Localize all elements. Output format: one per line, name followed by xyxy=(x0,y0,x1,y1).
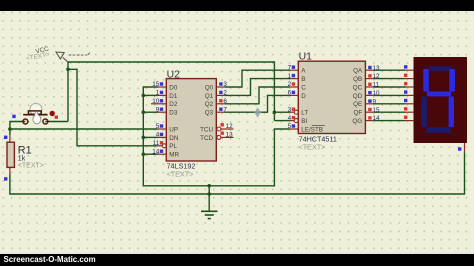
svg-text:QB: QB xyxy=(353,76,362,83)
U2 pin 4 DN xyxy=(156,132,179,142)
svg-text:U1: U1 xyxy=(299,52,313,63)
node button left state xyxy=(12,115,15,118)
node R1 bottom state xyxy=(4,177,7,180)
node D3 junction xyxy=(142,110,146,114)
svg-text:QE: QE xyxy=(353,101,362,108)
node D1 junction xyxy=(142,94,146,98)
svg-text:10: 10 xyxy=(373,90,381,97)
node VCC/button junction xyxy=(66,68,70,72)
U2 pin 3 Q0 xyxy=(205,81,228,91)
mouse cursor xyxy=(33,112,41,124)
U2 pin 1 D1 xyxy=(156,90,178,100)
U2 pin 15 D0 xyxy=(152,81,178,91)
svg-text:6: 6 xyxy=(223,98,227,105)
svg-text:UP: UP xyxy=(169,126,178,133)
svg-text:LE/STB: LE/STB xyxy=(301,126,323,133)
node marker diamond xyxy=(254,107,261,117)
wire MR branch xyxy=(143,153,158,155)
node R1 top state xyxy=(4,136,7,139)
wire D3 branch xyxy=(143,111,158,113)
svg-text:5: 5 xyxy=(288,123,292,130)
label U1 <TEXT> xyxy=(299,143,326,152)
svg-text:DN: DN xyxy=(169,135,179,142)
svg-text:Q0: Q0 xyxy=(205,84,214,91)
svg-text:<TEXT>: <TEXT> xyxy=(167,170,194,179)
svg-text:QC: QC xyxy=(353,84,363,91)
wire QA-QG segment A xyxy=(374,69,406,71)
svg-text:12: 12 xyxy=(373,73,381,80)
label U2 <TEXT> xyxy=(167,170,194,179)
U1 pin 9 QE xyxy=(353,98,376,108)
svg-text:13: 13 xyxy=(373,65,381,72)
U1 pin 4 BI xyxy=(288,115,308,125)
svg-text:D0: D0 xyxy=(169,84,178,91)
node ground rail junction xyxy=(207,192,211,196)
U2 pin 14 MR xyxy=(152,148,179,158)
svg-text:2: 2 xyxy=(223,90,227,97)
ground xyxy=(201,186,218,219)
wire DN branch xyxy=(143,136,158,138)
svg-text:11: 11 xyxy=(153,140,160,147)
display common pin xyxy=(458,143,465,152)
node button/R1/UP junction xyxy=(8,127,12,131)
label R1 xyxy=(18,145,32,157)
screen bottom bar xyxy=(0,252,474,254)
svg-text:3: 3 xyxy=(288,106,292,113)
7-segment display xyxy=(414,57,468,143)
U2 pin 13 TCD xyxy=(200,132,233,142)
display segment G (on) xyxy=(427,92,452,97)
U1 pin 11 QC xyxy=(353,82,380,92)
wire VCC branch to LT pin xyxy=(274,111,290,113)
svg-text:1: 1 xyxy=(288,73,292,80)
U1 pin 5 LE/STB xyxy=(288,123,325,133)
wire VCC down to button xyxy=(67,62,69,122)
power terminal VCC xyxy=(56,52,90,62)
svg-text:D3: D3 xyxy=(169,110,178,117)
svg-text:BI: BI xyxy=(301,118,307,125)
U1 pin 10 QD xyxy=(353,90,380,100)
counter U2 74LS192 xyxy=(166,79,216,161)
wire VCC to BI pin xyxy=(274,120,290,122)
U1 pin 15 QF xyxy=(353,107,380,117)
display pin A xyxy=(404,65,414,70)
resistor R1 xyxy=(7,135,14,174)
svg-text:C: C xyxy=(301,84,306,91)
label R1 value 1k xyxy=(18,156,26,163)
svg-text:7: 7 xyxy=(223,106,227,113)
svg-text:Q1: Q1 xyxy=(205,93,214,100)
wire Q2 to C xyxy=(224,87,290,104)
svg-text:15: 15 xyxy=(373,107,381,114)
display segment F (on) xyxy=(423,69,429,92)
U1 pin 14 QG xyxy=(352,115,380,125)
svg-text:4: 4 xyxy=(288,115,292,122)
U2 pin 2 Q1 xyxy=(205,90,228,100)
display segment E (off) xyxy=(421,96,427,127)
screen top bar xyxy=(0,0,474,11)
svg-text:B: B xyxy=(301,76,305,83)
svg-text:1: 1 xyxy=(156,90,160,97)
svg-text:9: 9 xyxy=(373,98,377,105)
svg-text:TCU: TCU xyxy=(200,126,213,133)
wire button left terminal to R1/UP xyxy=(10,122,26,136)
svg-text:4: 4 xyxy=(156,132,160,139)
node ground bus junction xyxy=(207,184,211,188)
U1 pin 7 A xyxy=(288,64,307,74)
button actuate red dot xyxy=(50,111,55,116)
U1 pin 13 QA xyxy=(353,65,380,75)
label VCC xyxy=(35,46,50,56)
U1 pin 1 B xyxy=(288,73,306,83)
U2 pin 6 Q2 xyxy=(205,98,228,108)
svg-text:10: 10 xyxy=(152,98,160,105)
display segment B (on) xyxy=(449,69,455,92)
wire Q1 to B xyxy=(224,79,290,96)
label U1 xyxy=(299,52,313,63)
svg-text:D2: D2 xyxy=(169,101,178,108)
label U2 xyxy=(167,69,181,80)
display pin E xyxy=(404,99,414,104)
display segment D (off) xyxy=(425,127,451,133)
U1 pin 3 LT xyxy=(288,106,309,116)
wire UP pin rail xyxy=(10,128,158,130)
label VCC <TEXT> xyxy=(26,51,51,62)
U1 pin 12 QB xyxy=(353,73,380,83)
display pin F xyxy=(404,107,414,112)
svg-text:U2: U2 xyxy=(167,69,181,80)
svg-text:TCD: TCD xyxy=(200,135,213,142)
svg-text:2: 2 xyxy=(288,81,292,88)
svg-text:11: 11 xyxy=(373,82,380,89)
wire D1 branch xyxy=(143,94,158,96)
node VCC junction xyxy=(273,110,277,114)
wire R1 bottom to ground rail xyxy=(10,152,465,194)
svg-text:3: 3 xyxy=(223,81,227,88)
svg-text:Q3: Q3 xyxy=(205,110,214,117)
display segment C (on) xyxy=(449,96,454,127)
node button right state xyxy=(55,116,58,119)
svg-text:6: 6 xyxy=(288,90,292,97)
U2 pin 7 Q3 xyxy=(205,106,228,116)
svg-text:15: 15 xyxy=(152,81,160,88)
U1 pin 2 C xyxy=(288,81,307,91)
svg-text:13: 13 xyxy=(226,132,234,139)
svg-text:LT: LT xyxy=(301,110,308,117)
wire VCC branch to PL pin xyxy=(68,69,158,146)
svg-text:QD: QD xyxy=(353,93,363,100)
wire Q3 to D xyxy=(224,95,290,112)
svg-text:1k: 1k xyxy=(18,156,26,163)
decoder U1 74HCT4511 xyxy=(298,61,365,133)
svg-text:<TEXT>: <TEXT> xyxy=(299,143,326,152)
display pin B xyxy=(404,74,414,79)
svg-text:<TEXT>: <TEXT> xyxy=(18,163,44,170)
svg-text:QF: QF xyxy=(353,110,362,117)
display segment A (off) xyxy=(428,66,453,71)
display pin C xyxy=(404,82,414,87)
svg-text:5: 5 xyxy=(156,123,160,130)
svg-text:QA: QA xyxy=(353,68,363,75)
push button SW xyxy=(23,103,48,124)
svg-text:9: 9 xyxy=(156,106,160,113)
svg-text:QG: QG xyxy=(352,118,362,125)
svg-text:12: 12 xyxy=(226,123,234,130)
svg-text:D1: D1 xyxy=(169,93,178,100)
svg-text:14: 14 xyxy=(373,115,381,122)
wire QA-QG segment D xyxy=(374,94,406,96)
wire QA-QG segment B xyxy=(374,78,406,80)
U2 pin 10 D2 xyxy=(151,98,178,108)
svg-text:Q2: Q2 xyxy=(205,101,214,108)
svg-text:D: D xyxy=(301,93,306,100)
U2 pin 9 D3 xyxy=(156,106,178,116)
wire ground bus D0-D3/DN/MR xyxy=(143,87,290,186)
U2 pin 5 UP xyxy=(156,123,178,133)
wire QA-QG segment E xyxy=(374,103,406,105)
svg-text:7: 7 xyxy=(288,64,292,71)
U2 pin 11 PL xyxy=(153,140,178,150)
wire QA-QG segment G xyxy=(374,120,406,122)
wire Q0 to A xyxy=(224,70,290,87)
U1 pin 6 D xyxy=(288,90,307,100)
wire VCC top rail to U1 xyxy=(68,62,274,121)
node MR junction xyxy=(142,152,146,156)
display pin D xyxy=(404,90,414,95)
wire QA-QG segment F xyxy=(374,111,406,113)
node DN junction xyxy=(142,136,146,140)
svg-text:MR: MR xyxy=(169,152,179,159)
label R1 <TEXT> xyxy=(18,163,44,170)
U2 pin 12 TCU xyxy=(200,123,233,133)
wire QA-QG segment C xyxy=(374,86,406,88)
label U2 value 74LS192 xyxy=(167,161,196,170)
wire button right terminal to VCC xyxy=(45,121,68,123)
svg-text:PL: PL xyxy=(169,143,177,150)
svg-text:14: 14 xyxy=(152,148,160,155)
display pin G xyxy=(404,116,414,121)
label U1 value 74HCT4511 xyxy=(299,134,337,143)
